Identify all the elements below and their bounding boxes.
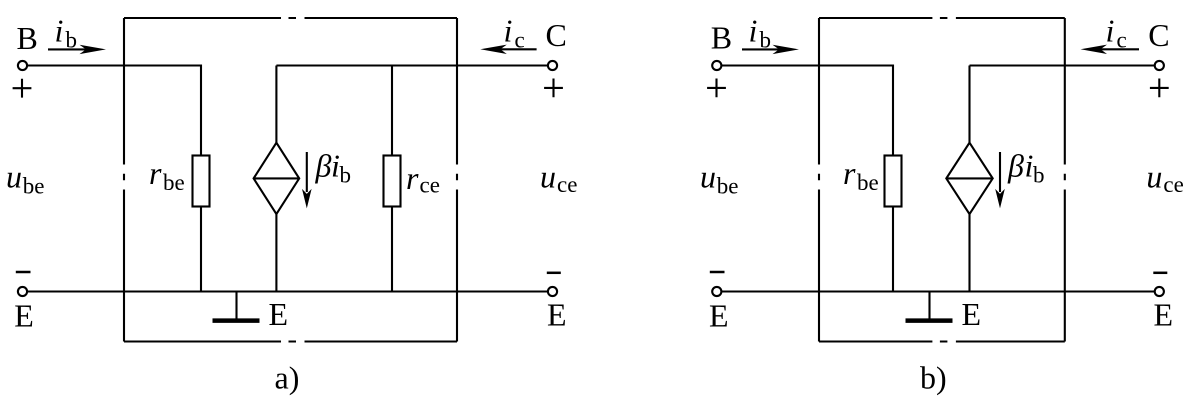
- ground (b): [928, 292, 930, 319]
- two-port box (b) top edge (dash-dot): [819, 17, 1065, 19]
- svg-text:ce: ce: [557, 172, 577, 197]
- terminal E left (b): [712, 287, 721, 296]
- svg-text:i: i: [1106, 13, 1115, 49]
- svg-text:be: be: [857, 170, 879, 195]
- svg-text:C: C: [1148, 17, 1169, 53]
- wire top collector side (a): [276, 64, 548, 66]
- svg-text:c: c: [515, 27, 525, 52]
- plus sign right (b): [1150, 79, 1169, 98]
- svg-text:i: i: [749, 13, 758, 49]
- two-port box (b) left edge (dash-dot): [818, 18, 820, 342]
- wire source bottom lead (b): [968, 214, 970, 291]
- svg-text:r: r: [406, 160, 419, 196]
- svg-text:ce: ce: [420, 173, 440, 198]
- current arrow i_c (a): [499, 48, 537, 50]
- terminal C (a): [548, 61, 557, 70]
- terminal C (b): [1155, 61, 1164, 70]
- svg-text:B: B: [711, 20, 732, 56]
- svg-text:β: β: [315, 148, 332, 184]
- controlled current source U2 diamond (b): [946, 143, 992, 214]
- svg-text:i: i: [55, 13, 64, 49]
- wire r_ce bottom lead (a): [391, 207, 393, 292]
- svg-text:r: r: [843, 155, 856, 191]
- svg-text:E: E: [547, 297, 567, 333]
- two-port box (b) right edge (dash-dot): [1064, 18, 1066, 342]
- plus sign right (a): [544, 79, 563, 98]
- svg-text:i: i: [504, 13, 513, 49]
- svg-text:c: c: [1117, 27, 1127, 52]
- two-port box (a) left edge (dash-dot): [123, 18, 125, 342]
- svg-text:be: be: [23, 173, 45, 198]
- svg-text:C: C: [546, 17, 567, 53]
- terminal E right (a): [548, 287, 557, 296]
- source arrow beta*i_b (a): [306, 152, 308, 192]
- terminal B (b): [712, 61, 721, 70]
- svg-text:E: E: [1154, 297, 1174, 333]
- current arrow i_c (b): [1099, 48, 1139, 50]
- minus sign left (a): [16, 271, 31, 274]
- wire B to r_be top (b): [721, 66, 893, 156]
- svg-text:u: u: [540, 159, 556, 195]
- current arrow i_b (a): [48, 48, 87, 50]
- svg-text:b: b: [340, 163, 352, 188]
- ground (a): [235, 292, 237, 319]
- minus sign right (a): [547, 272, 561, 275]
- terminal E right (b): [1155, 287, 1164, 296]
- svg-text:b: b: [66, 28, 78, 53]
- terminal E left (a): [18, 287, 27, 296]
- wire source bottom lead (a): [275, 214, 277, 291]
- svg-text:r: r: [149, 155, 162, 191]
- svg-text:E: E: [269, 296, 289, 332]
- wire r_be bottom to E rail (b): [892, 207, 894, 292]
- wire r_ce top lead (a): [391, 66, 393, 156]
- two-port box (b) bottom edge (dash-dot): [819, 340, 1065, 342]
- svg-text:u: u: [700, 159, 716, 195]
- resistor r_ce (a): [384, 156, 401, 207]
- minus sign right (b): [1153, 272, 1167, 275]
- svg-text:ce: ce: [1163, 172, 1183, 197]
- plus sign left (b): [707, 79, 726, 98]
- resistor r_be (a): [193, 156, 210, 207]
- svg-text:E: E: [962, 296, 982, 332]
- source arrow beta*i_b (b): [999, 152, 1001, 192]
- svg-text:β: β: [1007, 148, 1024, 184]
- svg-text:b: b: [1033, 163, 1045, 188]
- wire B to r_be top (a): [27, 66, 201, 156]
- svg-text:B: B: [17, 20, 38, 56]
- svg-text:be: be: [163, 170, 185, 195]
- svg-text:E: E: [14, 298, 34, 334]
- two-port box (a) top edge (dash-dot): [124, 17, 457, 19]
- svg-text:u: u: [6, 159, 22, 195]
- plus sign left (a): [13, 79, 32, 98]
- svg-text:a): a): [275, 360, 300, 396]
- resistor r_be (b): [885, 156, 902, 207]
- svg-text:b: b: [760, 28, 772, 53]
- current arrow i_b (b): [742, 48, 780, 50]
- svg-text:b): b): [920, 360, 947, 396]
- wire r_be bottom to E rail (a): [200, 207, 202, 292]
- bottom emitter rail (a): [27, 290, 548, 292]
- svg-text:u: u: [1146, 159, 1162, 195]
- wire source top lead (a): [275, 66, 277, 143]
- terminal B (a): [18, 61, 27, 70]
- wire top collector side (b): [970, 64, 1155, 66]
- minus sign left (b): [710, 271, 725, 274]
- controlled current source U1 diamond (a): [254, 143, 300, 214]
- two-port box (a) right edge (dash-dot): [456, 18, 458, 342]
- svg-text:be: be: [717, 173, 739, 198]
- svg-text:E: E: [709, 298, 729, 334]
- bottom emitter rail (b): [721, 290, 1154, 292]
- two-port box (a) bottom edge (dash-dot): [124, 340, 457, 342]
- wire source top lead (b): [968, 66, 970, 143]
